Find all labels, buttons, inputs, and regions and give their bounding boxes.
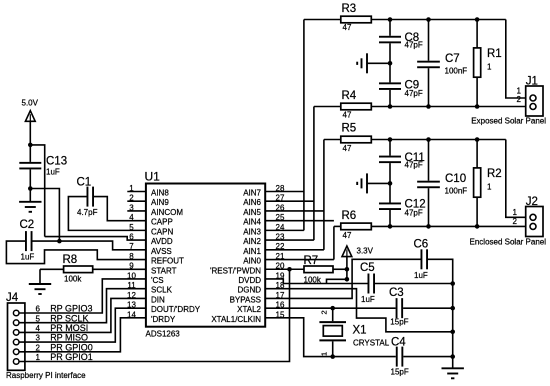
resistor R7 [265,255,347,284]
node AIN3 net top rail [390,19,506,21]
junction crystal bottom [330,354,335,359]
wire C1 left to CAPN [68,197,145,231]
junction dots bottom rail block2 [388,224,480,229]
node AIN0 net bottom rail block2 [390,225,530,227]
svg-text:PR MOSI: PR MOSI [50,323,88,333]
pin 23 wire [265,239,314,241]
svg-text:DOUT/'DRDY: DOUT/'DRDY [151,305,201,314]
pin 28 stub [265,191,304,193]
svg-text:R2: R2 [487,168,502,180]
pin label J4 1 PR GPIO1 [35,352,92,362]
pin 13 name DOUT/'DRDY [151,305,201,314]
resistor R1 [474,20,502,107]
IC U1 ADS1263 [145,170,266,339]
svg-text:47pF: 47pF [405,89,423,98]
svg-text:47: 47 [343,231,352,240]
wire J4-3 PR MISO to DOUT/'DRDY [19,308,146,342]
capacitor C2 [20,219,35,262]
svg-text:C2: C2 [20,219,35,231]
svg-text:RP SCLK: RP SCLK [50,313,88,323]
pin number 18 [276,281,285,290]
junction rail C3 [450,306,455,311]
wire ground rail [452,284,454,369]
node 5.0V junction [28,143,33,148]
pin number 28 [276,184,285,193]
wire 3.3V to DVDD net [346,269,348,279]
pin number 22 [276,242,285,251]
svg-text:1uF: 1uF [21,253,35,262]
pin number 9 [129,262,134,271]
svg-text:PR GPIO1: PR GPIO1 [50,352,93,362]
wire to J2 pin1 [506,140,530,218]
svg-text:AIN0: AIN0 [243,257,261,266]
svg-text:AVSS: AVSS [151,247,172,256]
resistor R3 [304,3,390,32]
pin 19 name DVDD [238,276,261,285]
svg-text:AIN4: AIN4 [243,218,261,227]
pin 26 name AIN5 [243,208,261,217]
pin 12 name DIN [151,295,165,304]
svg-text:RP MISO: RP MISO [50,333,88,343]
pin number 13 [127,301,136,310]
pin 15 name XTAL1/CLKIN [211,315,261,324]
pin 16 name XTAL2 [237,305,261,314]
pin number 4 [129,213,134,222]
pin number 1 [129,184,134,193]
svg-text:2: 2 [517,95,522,104]
pin labels J1 [517,86,522,104]
wire DGND net [265,289,453,332]
pin number 8 [129,252,134,261]
wire to ground (block2) [367,182,390,184]
wire AVDD net [45,237,146,241]
wire J4-2 PR GPIO0 to 'DRDY [19,318,146,352]
svg-text:47: 47 [343,144,352,153]
capacitor C13 [19,145,67,189]
svg-text:1uF: 1uF [361,295,375,304]
pin number 24 [276,223,285,232]
svg-text:CAPN: CAPN [151,227,173,236]
wire R5 to AIN1 (vertical) [323,140,325,250]
junction rail C5 [450,281,455,286]
svg-text:R1: R1 [487,48,502,60]
ground (sideways, block1) [357,53,367,73]
label Enclosed Solar Panel [470,237,547,246]
svg-text:C13: C13 [46,155,67,167]
junction rail C4 [450,354,455,359]
pin number 5 [129,223,134,232]
svg-text:R6: R6 [342,210,357,222]
svg-text:1: 1 [320,352,329,356]
svg-text:Raspberry PI interface: Raspberry PI interface [6,371,86,380]
ground (sideways, block2) [357,173,367,193]
svg-text:C10: C10 [445,173,466,185]
pin 8 name REFOUT [151,257,184,266]
pin 5 name CAPN [151,227,173,236]
svg-text:3.3V: 3.3V [357,247,374,256]
pin label J4 2 PR GPIO0 [35,342,92,352]
capacitor C8 [379,20,423,64]
pin number 23 [276,233,285,242]
pin 17 name BYPASS [230,295,261,304]
svg-text:'REST/'PWDN: 'REST/'PWDN [210,266,261,275]
label Raspberry PI interface [6,371,86,380]
capacitor C3 [389,287,409,327]
svg-text:J2: J2 [526,196,538,208]
pin 2 name AIN9 [151,198,169,207]
junction dots bottom rail block1 [388,104,480,109]
pin 3 stub [127,210,146,212]
capacitor C11 [379,140,425,184]
pin 9 name START [151,266,177,275]
svg-text:R4: R4 [342,90,357,102]
resistor R2 [474,140,502,227]
wire C13-gnd branch right [30,189,59,242]
power 3.3V [342,246,374,269]
wire J4-5 RP SCLK to SCLK [19,289,146,323]
svg-text:AIN8: AIN8 [151,189,169,198]
svg-text:XTAL2: XTAL2 [237,305,261,314]
svg-text:CAPP: CAPP [151,218,173,227]
svg-text:C7: C7 [445,53,460,65]
pin 20 name 'REST/'PWDN [210,266,261,275]
svg-text:XTAL1/CLKIN: XTAL1/CLKIN [211,315,261,324]
pin number 26 [276,203,285,212]
svg-text:CRYSTAL: CRYSTAL [353,339,390,348]
svg-text:ADS1263: ADS1263 [146,330,181,339]
capacitor C7 [417,20,467,107]
wire J4-1 PR GPIO1 to 'REST/'PWDN [19,269,289,361]
wire C1 right to CAPP [94,197,146,221]
svg-text:47: 47 [343,111,352,120]
pin 3 name AINCOM [151,208,183,217]
wire C3 right to ground rail [403,307,453,309]
pin number 15 [276,310,285,319]
pin 26 stub [265,210,324,212]
pin number 14 [127,310,136,319]
capacitor C12 [379,183,426,226]
pin 25 name AIN4 [243,218,261,227]
svg-text:DIN: DIN [151,295,165,304]
svg-text:R5: R5 [342,123,357,135]
junction R7 right / 3.3V [345,267,350,272]
wire to J1 pin1 [506,20,530,99]
wire BYPASS net [265,259,420,298]
svg-text:AIN2: AIN2 [243,237,261,246]
wire XTAL1 net [265,318,396,357]
junction AVSS-ground [57,239,62,244]
pin number 12 [127,291,136,300]
pin 1 name AIN8 [151,189,169,198]
connector J2 [526,196,543,237]
resistor R8 [40,254,146,283]
svg-text:100nF: 100nF [445,186,468,195]
pin 21 wire [265,259,334,261]
capacitor C9 [379,63,423,106]
wire C2 left to REFOUT [6,241,146,264]
svg-text:AINCOM: AINCOM [151,208,183,217]
svg-text:1uF: 1uF [46,168,60,177]
capacitor C1 [77,177,98,218]
pin 7 name AVSS [151,247,172,256]
pin 2 stub [127,200,146,202]
junction crystal top [330,306,335,311]
svg-text:47pF: 47pF [405,41,423,50]
pin 24 name AIN3 [243,227,261,236]
pin 18 name DGND [237,286,261,295]
pin 23 name AIN2 [243,237,261,246]
svg-text:1: 1 [513,208,518,217]
svg-text:'DRDY: 'DRDY [151,315,176,324]
pin number 17 [276,291,285,300]
pin number 21 [276,252,285,261]
svg-text:C6: C6 [414,238,429,250]
svg-text:AIN1: AIN1 [243,247,261,256]
svg-text:C3: C3 [389,287,404,299]
svg-text:J4: J4 [6,292,19,304]
pin number 6 [129,233,134,242]
svg-text:AIN7: AIN7 [243,189,261,198]
pin 6 name AVDD [151,237,173,246]
svg-text:X1: X1 [353,324,367,336]
pin label J4 5 RP SCLK [35,313,88,323]
pin 25 stub [265,220,334,222]
node AIN2 net bottom rail [390,106,530,108]
pin number 25 [276,213,285,222]
svg-text:AVDD: AVDD [151,237,173,246]
junction rail DGND [450,330,455,335]
resistor R5 [324,123,390,153]
node C13 bottom junction [28,186,33,191]
junction C11-C12 midpoint [388,181,393,186]
svg-text:1uF: 1uF [414,271,428,280]
capacitor C10 [417,140,467,227]
pin label J4 6 RP GPIO3 [35,304,92,314]
svg-text:AIN5: AIN5 [243,208,261,217]
ground under C13 [19,189,41,212]
wire C2 right to AVSS [33,241,146,250]
wire C5 right to ground rail [375,283,453,285]
pin number 16 [276,301,285,310]
ground under R8 [29,269,51,294]
svg-text:DVDD: DVDD [238,276,261,285]
svg-text:R7: R7 [304,255,319,267]
pin 10 name 'CS [151,276,164,285]
svg-text:REFOUT: REFOUT [151,257,184,266]
pin label J4 4 PR MOSI [35,323,88,333]
wire to ground (block1) [367,62,390,64]
svg-text:1: 1 [487,182,492,191]
svg-text:AIN6: AIN6 [243,198,261,207]
svg-text:15pF: 15pF [390,317,408,326]
pin label J4 3 RP MISO [35,333,88,343]
pin 22 name AIN1 [243,247,261,256]
svg-text:DGND: DGND [237,286,261,295]
resistor R6 [334,210,390,240]
wire C4 right to ground rail [403,356,452,358]
junction dots top rail block1 [388,17,480,22]
svg-text:47: 47 [343,23,352,32]
ground (main rail) [442,368,464,378]
wire DVDD net pin19 [265,279,367,284]
wire XTAL2 net [265,307,395,309]
label Exposed Solar Panel [471,117,546,126]
svg-text:2: 2 [320,310,329,314]
svg-text:J1: J1 [526,76,538,88]
svg-text:100nF: 100nF [445,66,468,75]
svg-text:Exposed Solar Panel: Exposed Solar Panel [471,117,546,126]
pin labels J2 [513,208,518,226]
svg-text:47pF: 47pF [405,161,423,170]
svg-text:5.0V: 5.0V [22,99,39,108]
svg-text:AIN9: AIN9 [151,198,169,207]
junction 'REST net at pin 20 [287,267,292,272]
svg-text:START: START [151,266,177,275]
pin number 10 [127,271,136,280]
svg-text:1: 1 [487,62,492,71]
connector J1 [526,76,543,117]
svg-text:47pF: 47pF [405,209,423,218]
pin number 11 [127,281,136,290]
svg-text:'CS: 'CS [151,276,164,285]
node AIN1 net top rail block2 [390,139,506,141]
crystal pin number 1 [320,352,329,356]
connector J4 [6,292,25,370]
pin number 7 [129,242,134,251]
wire C6 right to ground rail [428,259,453,283]
wire R4 to AIN2 (vertical) [313,107,315,241]
capacitor C4 [391,336,409,376]
wire J4-4 PR MOSI to DIN [19,298,146,332]
pin 27 stub [265,200,314,202]
svg-text:15pF: 15pF [391,368,409,377]
junction dots top rail block2 [388,137,480,142]
pin 4 name CAPP [151,218,173,227]
pin number 19 [276,271,285,280]
svg-text:PR GPIO0: PR GPIO0 [50,342,93,352]
junction C8-C9 midpoint [388,61,393,66]
pin number 3 [129,203,134,212]
svg-text:R8: R8 [63,254,78,266]
svg-text:2: 2 [513,217,518,226]
svg-text:C4: C4 [391,336,406,348]
svg-text:BYPASS: BYPASS [230,295,261,304]
wire DVDD branch jog [327,279,347,283]
crystal X1 [319,308,389,356]
svg-text:Enclosed Solar Panel: Enclosed Solar Panel [470,237,547,246]
power 5.0V [22,99,39,122]
wire 5.0V down [29,121,31,145]
wire R3 to AIN3 (vertical) [303,20,305,231]
svg-text:C1: C1 [77,177,92,189]
svg-text:4.7pF: 4.7pF [77,208,98,217]
pin 11 name SCLK [151,286,173,295]
wire 5.0V branch to AVDD [30,145,44,237]
svg-text:100k: 100k [64,275,82,284]
pin 14 name 'DRDY [151,315,176,324]
svg-text:SCLK: SCLK [151,286,173,295]
svg-text:C5: C5 [360,262,375,274]
pin number 2 [129,194,134,203]
pin 27 name AIN6 [243,198,261,207]
svg-text:RP GPIO3: RP GPIO3 [50,304,92,314]
pin 21 name AIN0 [243,257,261,266]
crystal pin number 2 [320,310,329,314]
pin number 20 [276,262,285,271]
junction DVDD branch [345,277,350,282]
pin number 27 [276,194,285,203]
svg-text:AIN3: AIN3 [243,227,261,236]
pin 22 wire [265,249,324,251]
pin 24 wire [265,229,304,231]
capacitor C6 [414,238,429,280]
pin 1 stub [127,191,146,193]
wire R6 to AIN0 (vertical) [333,226,335,259]
resistor R4 [314,90,390,119]
pin 28 name AIN7 [243,189,261,198]
svg-text:R3: R3 [342,3,357,15]
wire J4-6 RP GPIO3 to 'CS [19,279,146,313]
svg-text:U1: U1 [145,170,161,184]
capacitor C5 [360,262,375,304]
